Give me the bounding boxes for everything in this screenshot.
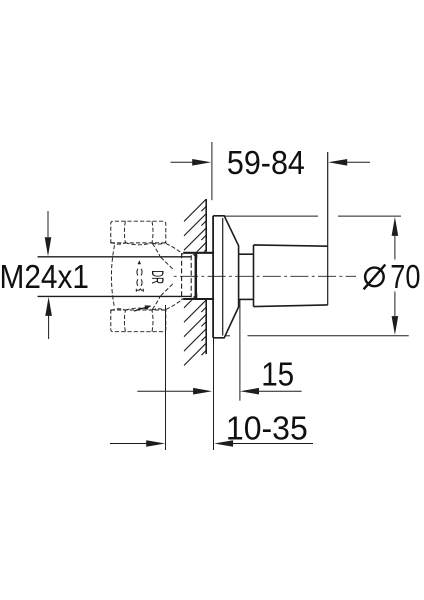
svg-text:M24x1: M24x1 — [0, 258, 89, 295]
neck bottom — [239, 298, 254, 300]
M24 thread bottom line — [38, 295, 192, 297]
flow arrow marker — [138, 260, 141, 264]
svg-text:70: 70 — [390, 258, 420, 295]
escutcheon back edge — [212, 216, 214, 338]
dim dia70 bottom extension — [226, 335, 231, 337]
bottom band top edge — [111, 309, 166, 311]
dim 10-35 left extension — [165, 305, 167, 450]
dim 10-35 left arrow — [110, 443, 147, 445]
dim dia70 top extension — [224, 215, 318, 217]
wall face line lower — [205, 300, 207, 354]
wall hole top edge (thick) — [183, 252, 214, 254]
valve shoulder curve upper right outer — [166, 243, 183, 254]
valve body face (dashed) — [181, 253, 183, 300]
hex silhouette left — [111, 245, 114, 307]
chamfer arcs bottom — [111, 309, 126, 311]
seal wedge bottom — [192, 293, 197, 297]
hex corner slant lower — [161, 283, 174, 296]
M24 thread top line — [38, 256, 192, 258]
escutcheon outline — [213, 216, 239, 338]
dim 59-84 left extension — [211, 142, 213, 200]
wall hatching bottom — [184, 286, 206, 366]
svg-text:DR: DR — [148, 270, 166, 284]
valve shoulder curve lower right inner — [152, 297, 160, 310]
hex nut top band — [111, 221, 166, 243]
dia symbol — [365, 268, 384, 287]
hex facet curves bottom — [124, 310, 125, 331]
chamfer arcs top — [111, 242, 126, 244]
small slant mark — [134, 306, 151, 311]
dim M24x1 bottom arrow — [48, 315, 50, 339]
handle cylinder — [254, 245, 328, 307]
hex facet curves top — [124, 221, 125, 242]
dim dia70 up arrow — [392, 217, 399, 236]
dim dia70 down arrow — [392, 316, 399, 335]
dim 10-35 right arrow — [232, 443, 313, 445]
dim M24x1 top arrow — [47, 211, 49, 238]
dim 15 right arrow — [258, 390, 302, 392]
top band bottom edge — [111, 242, 166, 244]
dim 15 extension — [239, 300, 241, 401]
valve shoulder curve upper right inner — [152, 243, 160, 256]
wall face line upper — [205, 199, 207, 252]
centerline — [174, 275, 356, 277]
seal wedge top — [192, 254, 197, 258]
dim 15 left arrow — [137, 390, 194, 392]
dim 59-84 left arrow — [171, 161, 194, 163]
hex nut bottom band — [111, 310, 166, 332]
dim 10-35 right extension — [213, 338, 215, 450]
valve shoulder curve lower right outer — [166, 299, 183, 310]
escutcheon cone base line — [222, 218, 224, 336]
hidden edge in wall — [190, 255, 192, 297]
handle front face / dim extension — [327, 152, 329, 305]
wall hatching top — [184, 199, 206, 265]
svg-text:10-35: 10-35 — [226, 409, 308, 446]
svg-text:15: 15 — [261, 356, 294, 393]
svg-text:59-84: 59-84 — [227, 144, 305, 181]
wall hole bottom edge (thick) — [183, 298, 214, 300]
thread end cap — [195, 253, 198, 298]
hex corner slant upper — [161, 257, 174, 270]
dim 59-84 right arrow — [346, 161, 370, 163]
neck top — [239, 253, 254, 255]
